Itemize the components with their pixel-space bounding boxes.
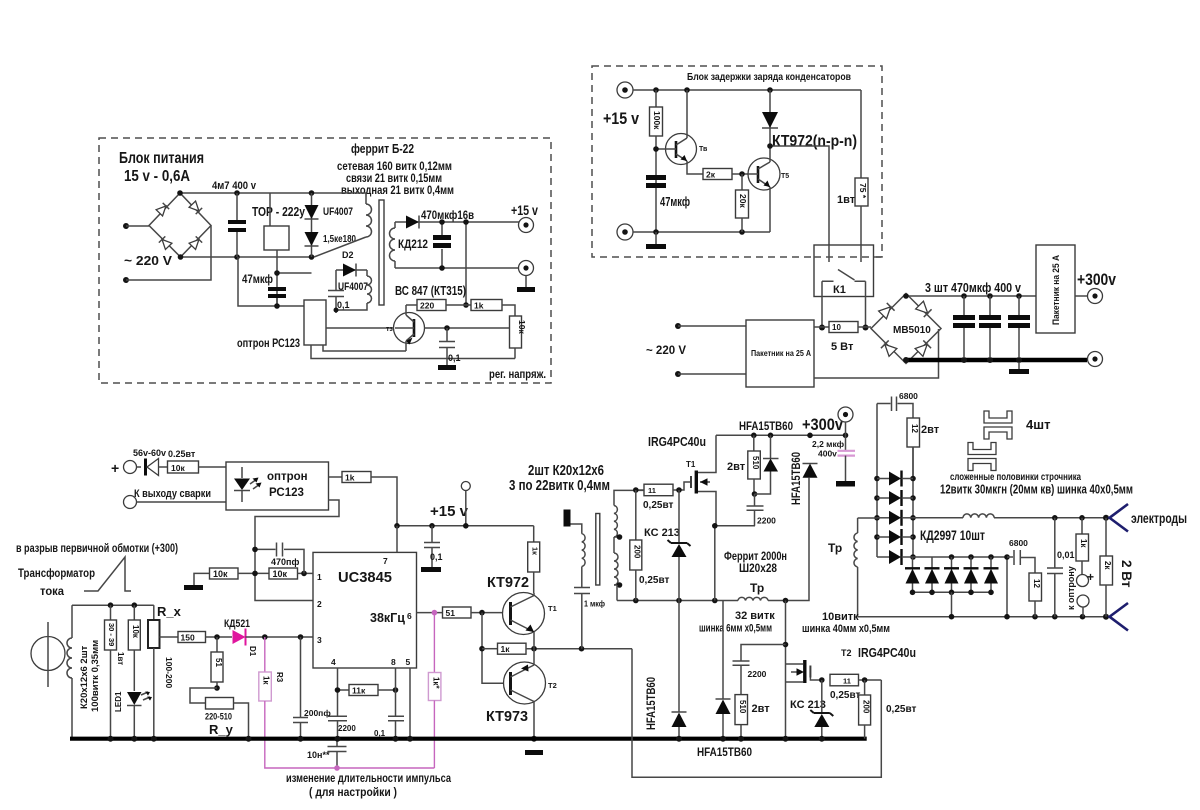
wire: DC- bottom rail of block1: [181, 256, 315, 258]
svg-text:51: 51: [214, 658, 223, 667]
label: Трансформатор тока: [18, 566, 95, 598]
transformer secondary winding: [390, 222, 396, 268]
dashed frame: блок задержки: [592, 66, 882, 257]
capacitor 0,1 (bias): [328, 270, 350, 313]
svg-text:150: 150: [181, 633, 195, 643]
resistor 10к #1 (pin1 divider): [194, 568, 269, 585]
svg-text:+15 v: +15 v: [430, 503, 469, 520]
svg-text:Тр: Тр: [828, 541, 842, 555]
transformer core: [379, 200, 384, 305]
gate transformer: +15 feed bar: [564, 510, 571, 527]
resistor 1k (opto pullup): [342, 472, 397, 526]
gate transformer primary: [571, 524, 586, 587]
rail junction dots: [108, 736, 114, 742]
svg-text:1k: 1k: [474, 301, 484, 311]
diode КД2997 #7: [925, 557, 940, 592]
wire: pin4 timing: [337, 668, 339, 739]
svg-text:2вт: 2вт: [752, 703, 771, 715]
resistor 11 0,25вт (T1 gate): [633, 482, 690, 511]
svg-text:8: 8: [391, 657, 396, 667]
svg-text:4: 4: [331, 657, 336, 667]
svg-text:1к: 1к: [262, 676, 271, 685]
svg-text:200: 200: [862, 700, 871, 714]
svg-text:1: 1: [317, 572, 322, 582]
svg-text:10к: 10к: [131, 625, 140, 639]
svg-text:38кГц: 38кГц: [370, 611, 405, 625]
diode КД2997 #6 (bottom row): [905, 557, 920, 592]
diode HFA15TB60 (left freewheel b): [716, 601, 731, 742]
resistor 510 2вт (T2 snubber): [735, 695, 770, 742]
transformer bias winding: [336, 270, 372, 310]
svg-text:Тв: Тв: [699, 146, 708, 153]
svg-text:10н**: 10н**: [307, 750, 330, 760]
terminal -300v: [1088, 352, 1103, 367]
ground (+15 cap): [421, 567, 441, 572]
svg-text:0,1: 0,1: [448, 353, 461, 363]
svg-text:+: +: [111, 460, 119, 476]
wire: bottom anode bus: [913, 591, 992, 593]
relay K1 box: [814, 245, 874, 297]
current transformer: core circle + primary wire: [31, 622, 65, 687]
terminal mains L: [675, 323, 681, 329]
svg-text:шинка 40мм х0,5мм: шинка 40мм х0,5мм: [802, 623, 890, 635]
wire: plus output line: [858, 517, 963, 519]
resistor 1k: [471, 300, 515, 317]
ground mid bus: [1009, 362, 1029, 374]
resistor 11к: [335, 685, 399, 696]
wire: opto out to 1k: [329, 476, 343, 478]
wire: CT top bus: [72, 604, 154, 606]
svg-text:12витк 30мкгн (20мм кв) шинк: 12витк 30мкгн (20мм кв) шинка 40х0,5мм: [940, 482, 1133, 497]
capacitor 0,1 (+15): [424, 526, 443, 567]
wire: T2 drain drop: [785, 601, 787, 739]
svg-text:100к: 100к: [652, 111, 662, 130]
ground block2: [646, 232, 666, 249]
diode 56v-60v: [133, 448, 168, 476]
svg-text:выходная 21 витк 0,4мм: выходная 21 витк 0,4мм: [341, 183, 454, 197]
diode КД2997 #2: [877, 490, 913, 506]
svg-text:1к*: 1к*: [432, 677, 441, 689]
capacitor 470мкф #3: [1008, 296, 1030, 358]
electrode -: [1110, 603, 1129, 631]
svg-text:10к: 10к: [273, 569, 288, 579]
svg-text:15 v - 0,6А: 15 v - 0,6А: [124, 168, 190, 185]
ground under terminal: [517, 276, 535, 293]
capacitor 200п (pin3 filter): [293, 637, 331, 739]
output breaker box (rotated): [1036, 245, 1075, 333]
svg-text:10к: 10к: [213, 569, 228, 579]
svg-text:( для настройки ): ( для настройки ): [309, 787, 397, 799]
svg-text:10витк: 10витк: [822, 611, 859, 623]
svg-text:0,01: 0,01: [1057, 550, 1075, 560]
svg-text:+300v: +300v: [1077, 270, 1116, 289]
dashed frame: блок питания: [99, 138, 551, 383]
wire: K1 contacts out: [822, 281, 866, 327]
junction dots block1 bottom rail: [178, 254, 184, 260]
resistor 12 (output snubber): [1029, 573, 1042, 617]
thick emitter/ground rail: [70, 737, 867, 741]
capacitor 47мкф block2: [646, 175, 690, 209]
resistor 30-39 1вт: [105, 605, 126, 739]
output choke 12витк: [963, 514, 994, 518]
wire: T5 collector to K1: [770, 146, 829, 245]
svg-text:1k: 1k: [345, 473, 355, 483]
label T2 IRG4PC40u: [841, 646, 916, 660]
svg-text:R_x: R_x: [157, 604, 182, 619]
resistor 12 2вт (diode bank snubber): [907, 418, 940, 479]
svg-text:HFA15TB60: HFA15TB60: [646, 677, 658, 730]
svg-text:470пф: 470пф: [271, 557, 299, 567]
svg-text:IRG4PC40u: IRG4PC40u: [858, 646, 916, 660]
svg-text:5: 5: [406, 657, 411, 667]
svg-text:2,2 мкф: 2,2 мкф: [812, 439, 845, 449]
ground (reg): [438, 365, 456, 370]
svg-text:0,25вт: 0,25вт: [830, 690, 860, 701]
svg-text:0.25вт: 0.25вт: [168, 449, 196, 459]
wire: pin8: [395, 668, 397, 739]
svg-text:100-200: 100-200: [164, 657, 174, 688]
svg-text:феррит Б-22: феррит Б-22: [351, 141, 414, 156]
capacitor 4м7 400v: [212, 180, 257, 257]
svg-text:UF4007: UF4007: [323, 206, 353, 218]
svg-text:12: 12: [910, 424, 919, 433]
wire: pin6 out: [417, 612, 443, 614]
diode КД2997 #9: [964, 557, 979, 592]
svg-text:2вт: 2вт: [921, 424, 940, 436]
transistor T2 KT973: [504, 649, 557, 739]
wire: +15 top rail block2: [633, 89, 861, 91]
electrode +: [1110, 504, 1129, 532]
label К20х12х6 2шт / 100витк 0,35мм: [79, 640, 101, 712]
sawtooth pictogram: [84, 557, 131, 591]
zener КС213 (T2): [790, 677, 833, 742]
wire: anode bus (vertical): [876, 404, 878, 558]
capacitor 0,01: [1047, 518, 1075, 617]
capacitor 0,1 (reg): [439, 328, 461, 365]
svg-text:T2: T2: [548, 681, 557, 690]
capacitor 470мкф #1: [953, 296, 975, 358]
label Феррит 2000н Ш20х28: [724, 549, 787, 575]
svg-text:1к: 1к: [1079, 539, 1088, 548]
wire: secondary top to +15: [395, 221, 519, 223]
resistor 100к: [650, 90, 663, 232]
svg-text:к оптрону: к оптрону: [1066, 566, 1076, 610]
capacitor 10н**: [307, 739, 347, 771]
bridge rectifier MB5010: [871, 294, 941, 364]
svg-text:+300v: +300v: [802, 416, 844, 434]
terminal + (weld output sense): [111, 460, 137, 476]
terminal 0v block1: [519, 261, 534, 276]
wire: stub to diodes bottom: [277, 272, 312, 274]
terminal mains N: [675, 371, 681, 377]
svg-text:200: 200: [633, 545, 642, 559]
capacitor 1мкф: [574, 588, 605, 649]
svg-text:КС 213: КС 213: [644, 527, 680, 539]
svg-text:T1: T1: [686, 460, 696, 469]
diode КД212: [398, 216, 428, 252]
svg-text:электроды: электроды: [1131, 511, 1187, 526]
svg-text:2вт: 2вт: [727, 461, 746, 473]
wire: base bus: [482, 613, 508, 684]
svg-text:32 витк: 32 витк: [735, 610, 775, 622]
svg-text:КТ972: КТ972: [487, 574, 529, 591]
svg-text:2200: 2200: [338, 724, 356, 733]
svg-text:75 *: 75 *: [858, 183, 868, 199]
svg-text:220: 220: [420, 301, 434, 311]
terminal: AC in bottom: [123, 277, 129, 283]
svg-text:4м7 400 v: 4м7 400 v: [212, 180, 257, 192]
terminal +300v (igbt rail): [838, 407, 853, 450]
svg-text:510: 510: [751, 456, 760, 470]
svg-text:Т5: Т5: [781, 173, 789, 180]
diode КД2997 #10: [984, 557, 999, 592]
svg-text:3 шт 470мкф 400 v: 3 шт 470мкф 400 v: [925, 281, 1021, 295]
ground (2,2мкф): [836, 481, 855, 487]
svg-text:Тр: Тр: [750, 581, 764, 595]
svg-text:шинка 6мм х0,5мм: шинка 6мм х0,5мм: [699, 623, 772, 635]
resistor 1к (between bases): [482, 643, 632, 654]
svg-text:D1: D1: [248, 646, 257, 657]
resistor 10k vertical: [510, 316, 528, 359]
svg-text:+15 v: +15 v: [511, 202, 538, 218]
svg-text:1вт: 1вт: [116, 652, 125, 665]
svg-text:1к: 1к: [501, 644, 511, 654]
wire: +300 IGBT rail: [716, 434, 846, 436]
svg-text:HFA15TB60: HFA15TB60: [739, 419, 793, 433]
wire: opto bottom pin to bottom bus: [311, 345, 515, 359]
svg-text:4шт: 4шт: [1026, 417, 1050, 432]
svg-text:2: 2: [317, 599, 322, 609]
svg-text:11: 11: [843, 676, 851, 685]
diode HFA15TB60 (left freewheel a): [646, 601, 687, 742]
junction emitter node: [531, 736, 537, 742]
svg-text:Ш20х28: Ш20х28: [739, 561, 777, 575]
wire: minus output line: [858, 616, 1109, 618]
svg-text:3 по 22витк 0,4мм: 3 по 22витк 0,4мм: [509, 477, 610, 494]
ground (divider): [184, 585, 203, 590]
resistor collector pullup: [528, 526, 540, 593]
svg-text:~ 220 V: ~ 220 V: [124, 253, 172, 268]
optocoupler PC123 (block1): [237, 300, 326, 350]
svg-text:КТ972(n-p-n): КТ972(n-p-n): [772, 133, 857, 150]
LED1: [114, 691, 152, 739]
svg-text:HFA15TB60: HFA15TB60: [791, 452, 803, 505]
svg-text:47мкф: 47мкф: [242, 272, 273, 286]
svg-text:56v-60v: 56v-60v: [133, 448, 166, 458]
svg-text:UC3845: UC3845: [338, 569, 392, 586]
svg-text:2 Вт: 2 Вт: [1119, 560, 1134, 588]
svg-text:оптрон: оптрон: [267, 471, 308, 483]
svg-text:400v: 400v: [818, 449, 837, 459]
ground (driver): [525, 750, 543, 755]
terminal: AC in top: [123, 223, 129, 229]
diode КД2997 #5: [877, 549, 913, 565]
svg-text:2200: 2200: [748, 669, 767, 679]
transformer T1 ferrite B-22: primary winding: [314, 193, 372, 257]
resistor 10к #2: [252, 568, 313, 579]
transistor T1 KT972: [503, 593, 557, 649]
diode КД2997 #8: [944, 557, 959, 592]
wire: T1 source node: [715, 526, 755, 601]
svg-text:HFA15TB60: HFA15TB60: [697, 745, 752, 759]
wire: +300 top rail: [906, 294, 1036, 297]
diode UF4007 (snubber top): [305, 193, 354, 257]
svg-text:1к: 1к: [531, 547, 540, 555]
wire: collector node to cap: [425, 327, 510, 329]
resistor R3 1k (pink): [259, 637, 435, 768]
svg-text:ТОР - 222у: ТОР - 222у: [252, 204, 306, 219]
IC TOP-222y: [252, 193, 306, 306]
diode 1,5ke180: [305, 232, 357, 246]
resistor 11 0,25вт (T2 gate): [830, 674, 881, 701]
wire: AC input bottom: [126, 226, 211, 280]
terminal +300v: [1075, 289, 1103, 304]
label: изменение длительности импульса (pink): [286, 773, 451, 799]
svg-text:в разрыв первичной обмотки (+3: в разрыв первичной обмотки (+300): [16, 543, 178, 555]
svg-text:T2: T2: [841, 648, 852, 658]
terminal 0v block2: [617, 224, 633, 240]
snubber 6800 (diode bank): [877, 391, 918, 418]
svg-text:К1: К1: [833, 284, 846, 296]
svg-text:3: 3: [317, 635, 322, 645]
IGBT T1: [691, 435, 716, 526]
capacitor 2,2мкф 400v (pink): [812, 439, 855, 481]
wire: pin5 gnd: [409, 668, 411, 739]
diode КД2997 #1: [877, 471, 913, 487]
svg-text:Трансформатор: Трансформатор: [18, 566, 95, 580]
terminal к выходу сварки: [124, 488, 227, 509]
capacitor 2200 (T2 snubber): [733, 645, 786, 695]
svg-text:Блок задержки заряда конде: Блок задержки заряда конденсаторов: [687, 71, 851, 83]
svg-text:изменение длительности импульс: изменение длительности импульса: [286, 773, 451, 785]
wire: opto emitter to pin2 net: [255, 500, 339, 601]
wire: DC+ top rail of block1: [180, 192, 366, 194]
resistor 2к: [703, 169, 748, 180]
svg-text:1 мкф: 1 мкф: [584, 599, 605, 609]
svg-text:7: 7: [383, 556, 388, 566]
svg-text:IRG4PC40u: IRG4PC40u: [648, 435, 706, 449]
resistor 10к 0.25вт (sense): [168, 449, 227, 473]
svg-text:LED1: LED1: [114, 691, 123, 712]
svg-text:10к: 10к: [517, 320, 527, 334]
svg-text:6: 6: [407, 611, 412, 621]
snubber 6800 (output): [1007, 538, 1035, 573]
resistor R_x 100-200: [148, 604, 182, 739]
svg-text:КС 213: КС 213: [790, 699, 826, 711]
resistor 1к* (pink, pulse width): [428, 613, 441, 768]
svg-text:РС123: РС123: [269, 487, 304, 499]
wire: opto right to transistor base: [326, 327, 395, 329]
svg-text:КД2997 10шт: КД2997 10шт: [920, 528, 985, 543]
svg-text:2200: 2200: [757, 516, 776, 526]
gate transformer secondary lower: [614, 537, 622, 601]
wire: cathode link bus: [913, 557, 1007, 617]
wire: AC input top: [126, 225, 149, 227]
transistor T5: [748, 146, 789, 232]
svg-text:6800: 6800: [1009, 538, 1028, 548]
capacitor 2200 (T1 snubber): [747, 494, 777, 526]
wire: emitter return: [323, 345, 406, 351]
svg-text:КТ973: КТ973: [486, 708, 528, 725]
svg-text:R3: R3: [275, 672, 284, 683]
svg-text:510: 510: [738, 700, 747, 714]
wire: TOP source to optocoupler: [238, 257, 304, 306]
svg-text:10к: 10к: [171, 463, 185, 473]
breaker box Пакетник на 25А: [746, 320, 814, 387]
svg-text:11к: 11к: [352, 686, 366, 696]
diode КД521 D1 (magenta): [224, 618, 313, 657]
svg-text:20к: 20к: [738, 194, 748, 208]
capacitor 0,1 (vref): [374, 716, 404, 738]
bridge rectifier 220V: diamond: [149, 193, 211, 257]
svg-text:11: 11: [648, 486, 656, 495]
ferrite core halves pictogram 4шт: [968, 411, 1050, 471]
svg-text:Пакетник на 25 А: Пакетник на 25 А: [751, 349, 811, 358]
resistor 75 + 1вт: [837, 90, 868, 245]
diode KT972 (charge): [762, 90, 778, 146]
CT secondary winding: [67, 605, 72, 739]
capacitor 470мкф16в: [421, 208, 474, 271]
svg-text:2к: 2к: [706, 170, 716, 180]
svg-text:200пф: 200пф: [304, 708, 331, 718]
capacitor 2200 (timing): [328, 716, 356, 733]
transistor T4: [653, 90, 708, 174]
svg-text:0,1: 0,1: [430, 552, 443, 562]
svg-text:220-510: 220-510: [205, 712, 232, 723]
svg-text:Пакетник на 25 А: Пакетник на 25 А: [1051, 255, 1061, 325]
wire: breaker N to bridge: [814, 329, 939, 378]
diode КД2997 #4: [877, 529, 913, 545]
IC UC3845: [313, 552, 417, 668]
svg-text:12: 12: [1032, 579, 1041, 588]
svg-text:0,25вт: 0,25вт: [639, 575, 669, 586]
svg-text:рег. напряж.: рег. напряж.: [489, 367, 546, 381]
optocoupler PC123 (feedback): [226, 462, 329, 510]
resistor 220: [406, 300, 471, 311]
svg-text:0,1: 0,1: [337, 300, 350, 310]
terminal +15v block1: [511, 202, 538, 233]
svg-text:тз: тз: [386, 326, 393, 333]
svg-text:КД521: КД521: [224, 618, 250, 630]
svg-text:ВС 847 (КТ315): ВС 847 (КТ315): [395, 283, 466, 298]
resistor 10к (CT): [128, 605, 140, 691]
IGBT T2: [786, 660, 822, 683]
svg-text:47мкф: 47мкф: [660, 194, 690, 209]
svg-text:30 - 39: 30 - 39: [107, 623, 116, 646]
svg-text:КД212: КД212: [398, 237, 428, 251]
svg-text:2к: 2к: [1103, 561, 1112, 570]
label: Блок питания 15v-0,6А: [119, 150, 204, 185]
wire: breaker to resistor 10: [814, 326, 829, 328]
dashed border crossing K1: [814, 256, 882, 258]
terminal +15v block2: [603, 82, 639, 128]
label сложенные половинки строчника: [940, 471, 1133, 497]
capacitor 470мкф #2: [979, 296, 1001, 358]
wire: +15 rail bottom: [397, 525, 534, 527]
capacitor 470пф: [252, 543, 304, 574]
wire: gate return loop: [632, 649, 881, 778]
svg-text:+: +: [1087, 570, 1094, 584]
resistor 510 2вт (T1 snubber): [727, 435, 760, 497]
gate transformer core: [596, 514, 600, 586]
wire: bottom rail block2: [633, 231, 770, 233]
svg-text:~ 220 V: ~ 220 V: [646, 343, 686, 357]
svg-text:Блок питания: Блок питания: [119, 150, 204, 167]
svg-text:R_y: R_y: [209, 722, 234, 737]
svg-text:10: 10: [832, 323, 841, 332]
resistor 150: [160, 632, 233, 643]
svg-text:6800: 6800: [899, 391, 918, 401]
